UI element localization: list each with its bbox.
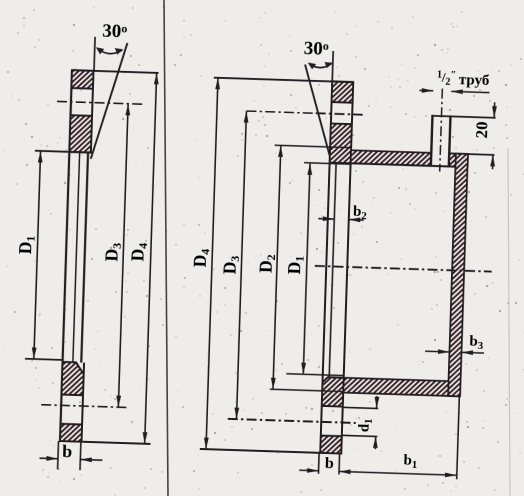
svg-text:труб: труб [459, 72, 490, 89]
b dimension arrow (right) [299, 469, 318, 472]
dimension line D3 (right) [236, 111, 246, 419]
left flange lower bolt hole centerline [41, 405, 128, 408]
d1 dimension line and arrows [376, 396, 378, 408]
neck top edge extended to 20 dimension [449, 153, 494, 154]
b dimension arrows (left) [39, 457, 57, 460]
svg-text:b: b [325, 455, 335, 472]
right flange bore silhouette line [329, 163, 336, 377]
right 30deg angle arc with arrows [309, 63, 331, 68]
neck bottom outer corner edge [448, 395, 460, 397]
D1 bottom extension line (left) [25, 359, 63, 360]
dimension line D2 (right) [273, 145, 281, 389]
b3 dimension arrows [425, 350, 449, 353]
dimension line D4 (left) [145, 73, 157, 444]
bore top extension to D1 [304, 163, 350, 165]
fitting diameter dimension arrows [419, 89, 433, 91]
svg-text:20: 20 [472, 121, 492, 139]
left flange second hatched section [69, 115, 92, 152]
fitting vertical centerline [440, 89, 443, 172]
right flange top hatched rim [332, 81, 354, 102]
right flange lower hatched section (chamfered) [322, 377, 344, 406]
left flange bore silhouette lines [73, 152, 80, 362]
right flange lower bolt hole centerline [228, 419, 356, 423]
neck bottom wall hatched [343, 378, 448, 396]
dimension line D1 (left) [34, 151, 41, 359]
left flange bottom hatched rim [60, 424, 82, 442]
pipe fitting right wall [449, 115, 451, 166]
left flange upper bolt hole centerline [57, 101, 143, 104]
svg-text:b: b [62, 441, 73, 461]
d1 top extension line [343, 407, 378, 408]
left flange top hatched rim [71, 70, 93, 89]
pipe fitting top edge + 20 extension [432, 116, 495, 118]
neck top wall bottom edge [351, 163, 456, 166]
b1 dimension line with arrows [339, 471, 456, 475]
dimension line D4 (right) [206, 78, 218, 449]
neck outer top extension to D2 [275, 145, 351, 147]
left flange 30deg cone face line [91, 42, 128, 160]
b2 dimension arrows [318, 218, 334, 221]
left flange bottom edge extended (D4 extension) [60, 441, 150, 444]
neck top wall hatched (right of fitting) [449, 153, 468, 167]
D1 top extension line (left) [35, 151, 91, 153]
left flange top edge extended (D4 extension) [72, 70, 159, 73]
neck outer bottom extension to D2 [270, 389, 343, 391]
upper bolt centerline extension to D3 [246, 111, 315, 113]
right flange plate outline [320, 81, 353, 453]
b1 right extension line (cap wall extended) [457, 396, 460, 479]
b extension lines (right) [317, 453, 320, 474]
cap end wall hatched [448, 154, 468, 397]
right flange face vertical reference line [331, 51, 334, 81]
main horizontal centerline [315, 266, 492, 272]
d1 bottom extension line [342, 435, 377, 436]
right flange bottom edge extended to D4 [200, 449, 341, 454]
b extension lines (left) [57, 441, 60, 469]
20 dimension line and arrows [493, 102, 496, 117]
left flange plate right face edge (upper rim) [91, 71, 94, 153]
dimension line D1 (right) [303, 163, 310, 374]
pipe fitting left wall [431, 115, 433, 166]
column separator line [164, 0, 168, 496]
left 30deg angle arc with arrows [97, 49, 122, 55]
right flange 30deg cone face line [302, 65, 333, 158]
left flange face vertical reference line [94, 37, 95, 71]
right flange second hatched section [330, 124, 352, 164]
dimension line D3 (left) [118, 104, 128, 407]
left flange plate right face edge (lower rim) [82, 363, 85, 442]
right flange top edge extended to D4 [214, 78, 353, 83]
neck top wall hatched (left of fitting) [351, 150, 432, 166]
right flange bottom hatched rim [320, 436, 342, 454]
right flange upper bolt hole centerline [316, 113, 363, 115]
bore bottom extension to D1 [286, 374, 343, 376]
left flange plate left face edge [60, 70, 72, 441]
left flange third hatched section (chamfered) [62, 362, 85, 395]
faint page fold line right [508, 148, 510, 496]
